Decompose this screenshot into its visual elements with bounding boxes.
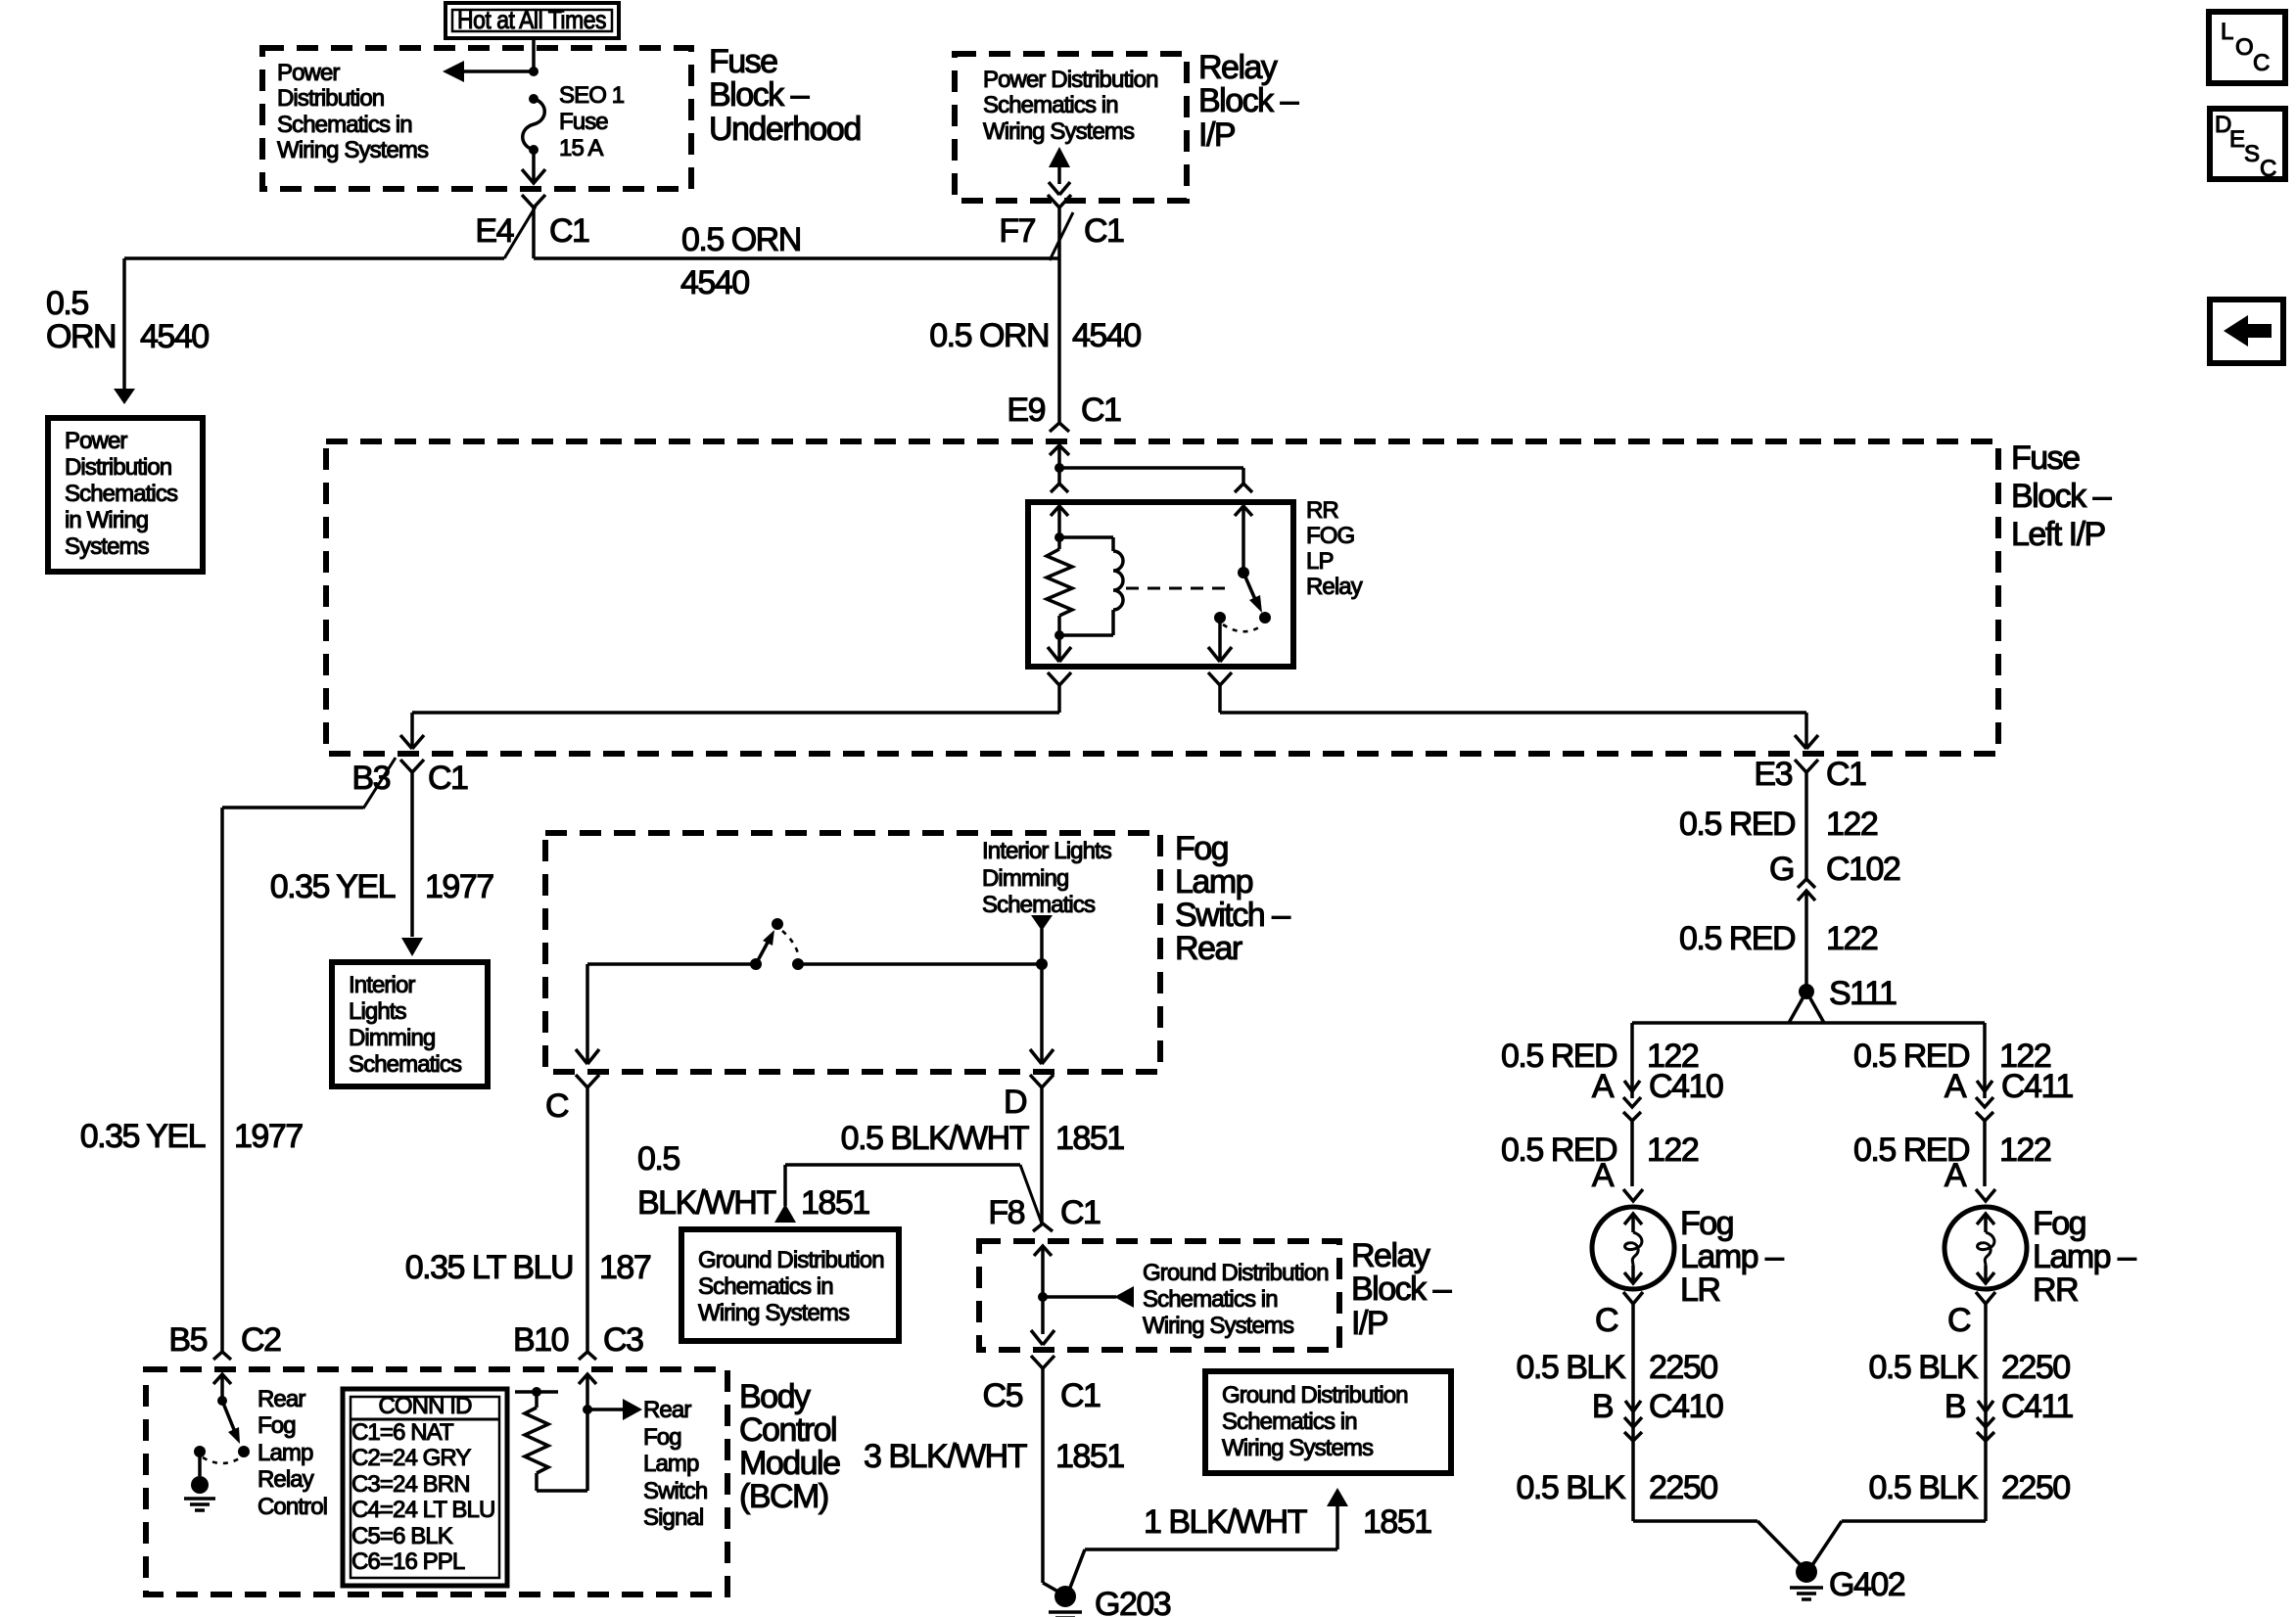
svg-text:C3: C3 [603, 1321, 643, 1359]
svg-text:122: 122 [1826, 920, 1878, 957]
relay block I/P lower dashed box [979, 1241, 1339, 1350]
label: 0.5 BLK 2250 (right lower) [1869, 1469, 2071, 1506]
svg-text:Fuse: Fuse [2011, 439, 2080, 477]
label: 0.5 RED 122 (right lower) [1853, 1132, 2051, 1169]
svg-text:Wiring Systems: Wiring Systems [983, 118, 1135, 145]
label: 0.5 RED 122 (E3) [1679, 806, 1878, 843]
label: Fuse Block - Underhood [709, 43, 861, 148]
svg-text:C410: C410 [1649, 1388, 1723, 1425]
connector B5/C2 [168, 1321, 281, 1360]
svg-text:I/P: I/P [1351, 1305, 1387, 1342]
label: 0.5 RED 122 (left branch) [1501, 1038, 1699, 1075]
label: 0.5 BLK 2250 (left lower) [1517, 1469, 1718, 1506]
connector coil pin below relay [1048, 672, 1071, 713]
ground G203 [1049, 1586, 1171, 1617]
svg-text:Wiring Systems: Wiring Systems [698, 1300, 850, 1326]
svg-text:Dimming: Dimming [982, 865, 1068, 892]
svg-text:Switch: Switch [643, 1478, 707, 1504]
svg-text:Schematics in: Schematics in [1143, 1286, 1278, 1313]
label: 0.5 BLK 2250 (right upper) [1869, 1349, 2071, 1386]
svg-text:Fog: Fog [643, 1424, 681, 1451]
svg-text:E: E [2229, 126, 2244, 153]
svg-text:C1: C1 [1081, 392, 1121, 429]
svg-text:15 A: 15 A [559, 135, 603, 162]
svg-text:122: 122 [1999, 1132, 2051, 1169]
wire relay to B3 [400, 713, 1059, 749]
svg-text:Block –: Block – [709, 76, 810, 114]
fog lamp switch rear dashed box [545, 833, 1160, 1072]
svg-text:2250: 2250 [2001, 1469, 2070, 1506]
svg-text:4540: 4540 [1072, 317, 1141, 354]
wire arrow to power distribution (left) [443, 61, 534, 82]
svg-text:Block –: Block – [2011, 478, 2112, 515]
connector F8/C1 [988, 1194, 1101, 1231]
svg-text:0.5 RED: 0.5 RED [1679, 920, 1795, 957]
wire B5 into BCM [213, 1374, 231, 1401]
svg-text:122: 122 [1826, 806, 1878, 843]
svg-text:Distribution: Distribution [65, 454, 171, 481]
wire relay to E3 [1220, 713, 1818, 749]
svg-text:Wiring Systems: Wiring Systems [277, 137, 429, 163]
connector C410 inline [1623, 1097, 1641, 1186]
fuse block underhood dashed box [262, 48, 691, 189]
relay switch [1214, 567, 1271, 631]
wire ground branch from F8 [785, 1165, 1042, 1224]
svg-text:187: 187 [599, 1249, 651, 1286]
svg-text:ORN: ORN [46, 318, 116, 355]
connector below left lamp [1595, 1292, 1643, 1521]
splice S111 [1799, 975, 1897, 1012]
open arrow at relay block bottom [1031, 1330, 1054, 1345]
BCM driver switch [194, 1396, 250, 1463]
svg-text:Control: Control [258, 1494, 327, 1520]
label: Body Control Module (BCM) [739, 1378, 840, 1515]
wire split from S111 [1632, 992, 1985, 1098]
svg-text:C3=24 BRN: C3=24 BRN [351, 1471, 470, 1498]
label: 0.5 ORN 4540 (middle) [929, 317, 1141, 354]
svg-text:A: A [1592, 1068, 1615, 1105]
svg-text:Schematics in: Schematics in [983, 92, 1118, 118]
ground G402 [1790, 1561, 1905, 1603]
svg-text:Dimming: Dimming [349, 1025, 435, 1051]
svg-text:RR: RR [2033, 1271, 2078, 1309]
svg-text:Interior: Interior [349, 972, 415, 998]
connector E9/C1 at fuse block edge [1007, 392, 1121, 468]
wire F8 into relay block [1034, 1246, 1052, 1334]
svg-text:BLK/WHT: BLK/WHT [637, 1184, 775, 1222]
svg-text:4540: 4540 [680, 264, 749, 301]
back arrow legend box [2210, 300, 2283, 363]
label B / C411 with arrow [1945, 1388, 2074, 1425]
svg-text:C410: C410 [1649, 1068, 1723, 1105]
open arrows at switch box bottom [576, 1049, 1054, 1064]
svg-text:F8: F8 [988, 1194, 1024, 1231]
svg-text:C411: C411 [2001, 1068, 2073, 1105]
pull-up resistor (BCM) [515, 1387, 587, 1491]
svg-text:2250: 2250 [2001, 1349, 2070, 1386]
svg-text:C5=6 BLK: C5=6 BLK [351, 1523, 453, 1549]
svg-text:G402: G402 [1829, 1566, 1905, 1603]
svg-text:C1: C1 [1060, 1194, 1101, 1231]
DESC legend box [2210, 109, 2285, 182]
svg-text:Ground Distribution: Ground Distribution [1222, 1382, 1408, 1409]
svg-text:Rear: Rear [1175, 930, 1242, 967]
label: 0.5 RED 122 (right branch) [1853, 1038, 2051, 1075]
node relay coil bottom dot [1054, 630, 1064, 640]
svg-text:Hot at All Times: Hot at All Times [457, 5, 606, 34]
svg-text:0.5 BLK: 0.5 BLK [1517, 1469, 1626, 1506]
wire from Hot tag down [532, 38, 536, 71]
svg-text:Fuse: Fuse [559, 109, 608, 135]
svg-text:Lamp: Lamp [643, 1451, 699, 1477]
svg-text:C4=24 LT BLU: C4=24 LT BLU [351, 1497, 494, 1523]
label: Rear Fog Lamp Relay Control [258, 1386, 327, 1520]
fog lamp RR [1945, 1207, 2027, 1289]
connector into left lamp [1623, 1189, 1643, 1201]
wire to G203 [1043, 1583, 1063, 1594]
svg-text:Module: Module [739, 1445, 840, 1482]
wire B3 branch left [222, 808, 363, 1352]
connector E3/C1 [1754, 756, 1866, 879]
connector G/C102 [1769, 851, 1900, 992]
label: Fog Lamp - LR [1680, 1205, 1784, 1309]
box: Ground Distribution Schematics in Wiring Systems (right) [1205, 1371, 1451, 1473]
box: Power Distribution Schematics in Wiring Systems (left) [48, 418, 203, 572]
arrow up to ground distribution box (right) [1327, 1488, 1348, 1506]
coil (relay) [1059, 537, 1123, 635]
label: 0.5 RED 122 (below C102) [1679, 920, 1878, 957]
svg-text:1977: 1977 [234, 1118, 303, 1155]
svg-text:0.5 BLK: 0.5 BLK [1869, 1349, 1979, 1386]
label B / C410 with arrow [1592, 1388, 1723, 1425]
svg-text:O: O [2235, 34, 2253, 61]
svg-text:Relay: Relay [1351, 1237, 1430, 1274]
svg-text:1 BLK/WHT: 1 BLK/WHT [1144, 1503, 1307, 1541]
svg-text:0.5 RED: 0.5 RED [1679, 806, 1795, 843]
connector B3/C1 [351, 758, 468, 937]
svg-text:B5: B5 [168, 1321, 207, 1359]
wire F7 down to E9 [1057, 208, 1061, 423]
ground inside BCM [184, 1452, 215, 1510]
svg-text:Wiring Systems: Wiring Systems [1222, 1435, 1374, 1461]
svg-text:0.5 ORN: 0.5 ORN [929, 317, 1049, 354]
svg-text:in Wiring: in Wiring [65, 507, 148, 533]
svg-text:Relay: Relay [1198, 49, 1278, 86]
svg-text:C1: C1 [549, 212, 589, 250]
svg-text:2250: 2250 [1649, 1349, 1717, 1386]
svg-text:I/P: I/P [1198, 116, 1235, 154]
relay block I/P top dashed box [955, 54, 1187, 201]
svg-text:3 BLK/WHT: 3 BLK/WHT [864, 1438, 1027, 1475]
svg-text:Body: Body [739, 1378, 811, 1415]
BCM dashed box [146, 1369, 727, 1594]
arrow from dimming schematics down [1031, 915, 1053, 964]
svg-text:C411: C411 [2001, 1388, 2073, 1425]
svg-text:Relay: Relay [258, 1466, 314, 1493]
svg-text:Power Distribution: Power Distribution [983, 67, 1158, 93]
connector relay coil pin top [1051, 484, 1068, 537]
dashed actuation line coil to switch [1126, 587, 1230, 590]
svg-text:E3: E3 [1754, 756, 1792, 793]
node junction dot [529, 67, 539, 76]
label: 1 BLK/WHT 1851 [1144, 1503, 1431, 1541]
svg-text:E9: E9 [1007, 392, 1045, 429]
svg-text:Rear: Rear [258, 1386, 305, 1412]
svg-text:Fog: Fog [258, 1412, 296, 1439]
svg-text:S111: S111 [1829, 975, 1897, 1012]
wire 4540 left branch [124, 258, 504, 391]
svg-text:0.35 YEL: 0.35 YEL [80, 1118, 206, 1155]
svg-text:Control: Control [739, 1411, 836, 1449]
svg-text:Ground Distribution: Ground Distribution [698, 1247, 884, 1273]
svg-text:Schematics: Schematics [349, 1051, 462, 1078]
label: Power Distribution Schematics in Wiring Systems (underhood) [277, 60, 429, 163]
wire coil pin bottom with arrow [1048, 635, 1071, 662]
svg-text:C2: C2 [241, 1321, 281, 1359]
svg-text:Underhood: Underhood [709, 111, 861, 148]
svg-text:B10: B10 [513, 1321, 569, 1359]
svg-text:C: C [2253, 50, 2270, 76]
label: 0.5 BLK 2250 (left upper) [1517, 1349, 1718, 1386]
svg-text:C: C [1595, 1302, 1618, 1339]
node relay coil top dot [1054, 532, 1064, 542]
svg-text:A: A [1592, 1157, 1615, 1194]
label A / C410 with arrow [1592, 1068, 1723, 1105]
connector C411 inline lower [1977, 1417, 1994, 1441]
wires to G402 [1633, 1521, 1986, 1565]
svg-text:Schematics in: Schematics in [277, 112, 412, 138]
svg-text:Ground Distribution: Ground Distribution [1143, 1260, 1329, 1286]
svg-text:Switch –: Switch – [1175, 897, 1290, 934]
svg-text:1851: 1851 [1055, 1438, 1124, 1475]
svg-text:A: A [1945, 1068, 1967, 1105]
svg-text:C1=6 NAT: C1=6 NAT [351, 1419, 454, 1446]
svg-text:B: B [1945, 1388, 1965, 1425]
svg-text:C2=24 GRY: C2=24 GRY [351, 1445, 471, 1471]
svg-text:(BCM): (BCM) [739, 1478, 828, 1515]
svg-text:C1: C1 [1826, 756, 1866, 793]
connector B10/C3 [513, 1321, 643, 1360]
svg-text:A: A [1945, 1157, 1967, 1194]
svg-text:0.35 LT BLU: 0.35 LT BLU [405, 1249, 573, 1286]
fuse block left I/P dashed box [326, 441, 1998, 754]
svg-text:C102: C102 [1826, 851, 1900, 888]
Hot at All Times tag [445, 3, 619, 38]
svg-text:C: C [2260, 156, 2276, 182]
svg-text:C1: C1 [1060, 1377, 1101, 1414]
arrow into power distribution box [114, 389, 135, 404]
relay RR FOG LP box [1028, 502, 1293, 667]
svg-text:FOG: FOG [1306, 523, 1354, 549]
node fuse top dot [529, 94, 539, 104]
connector E4/C1 [475, 195, 589, 258]
svg-text:1851: 1851 [1055, 1120, 1124, 1157]
node switch-dimmer junction dot [1036, 958, 1048, 970]
svg-text:Block –: Block – [1351, 1270, 1452, 1308]
connector C5/C1 [983, 1356, 1101, 1583]
connector switch pin below relay [1208, 672, 1232, 713]
node ground junction dot (relay block) [1038, 1292, 1048, 1302]
svg-text:2250: 2250 [1649, 1469, 1717, 1506]
LOC legend box [2209, 12, 2285, 83]
svg-text:Lamp –: Lamp – [1680, 1238, 1784, 1275]
label: Relay Block - I/P [1198, 49, 1299, 154]
svg-text:Rear: Rear [643, 1397, 691, 1423]
svg-text:Interior Lights: Interior Lights [982, 838, 1112, 864]
arrow to rear fog lamp switch signal [587, 1399, 642, 1420]
svg-text:CONN ID: CONN ID [378, 1393, 472, 1419]
resistor (relay) [1047, 537, 1072, 635]
fuse SEO 1 15 A (wavy symbol) [523, 99, 545, 150]
wire 4540 E4 to F7 [534, 256, 1059, 260]
label: Rear Fog Lamp Switch Signal [643, 1397, 707, 1531]
svg-text:C1: C1 [1084, 212, 1124, 250]
svg-text:C1: C1 [428, 760, 468, 797]
label: Relay Block - I/P (lower) [1351, 1237, 1452, 1342]
svg-text:G203: G203 [1095, 1586, 1171, 1617]
svg-text:C5: C5 [983, 1377, 1023, 1414]
label: 0.5 ORN 4540 (left) [46, 285, 209, 355]
label A / C411 with arrow [1945, 1068, 2074, 1105]
svg-text:C6=16 PPL: C6=16 PPL [351, 1548, 465, 1575]
svg-text:0.5 ORN: 0.5 ORN [681, 221, 801, 258]
svg-text:Schematics: Schematics [65, 481, 178, 507]
svg-text:Power: Power [65, 428, 127, 454]
connector C410 inline lower [1624, 1417, 1642, 1441]
label: 0.5 RED 122 (left lower) [1501, 1132, 1699, 1169]
svg-text:Power: Power [277, 60, 340, 86]
label: SEO 1 Fuse 15 A [559, 82, 625, 162]
svg-text:Left I/P: Left I/P [2011, 516, 2105, 553]
svg-text:Schematics in: Schematics in [1222, 1409, 1357, 1435]
svg-text:Signal: Signal [643, 1504, 703, 1531]
fog switch contacts and arm [750, 918, 804, 970]
svg-text:Lights: Lights [349, 998, 407, 1025]
wire to ground distribution (arrow left) [1043, 1286, 1134, 1308]
label: RR FOG LP Relay [1306, 497, 1363, 600]
label: 3 BLK/WHT 1851 [864, 1438, 1124, 1475]
arrow into interior lights box [401, 938, 423, 956]
svg-text:Fuse: Fuse [709, 43, 777, 80]
svg-text:LP: LP [1306, 548, 1334, 575]
svg-text:S: S [2244, 141, 2259, 167]
label: Fog Lamp - RR [2033, 1205, 2136, 1309]
connector D [1004, 1075, 1054, 1224]
svg-text:1851: 1851 [1363, 1503, 1431, 1541]
svg-text:0.35 YEL: 0.35 YEL [270, 868, 396, 905]
wire fuse to E4 with open arrow [522, 150, 545, 183]
label: 0.5 ORN 4540 (top middle) [680, 221, 801, 301]
svg-text:L: L [2221, 19, 2233, 45]
svg-text:G: G [1769, 851, 1794, 888]
svg-text:Wiring Systems: Wiring Systems [1143, 1313, 1294, 1339]
connector C411 inline [1976, 1097, 1993, 1186]
connector into right lamp [1976, 1189, 1995, 1201]
svg-text:122: 122 [1647, 1132, 1699, 1169]
svg-text:B: B [1592, 1388, 1613, 1425]
wire E9 branch to relay switch pin [1059, 468, 1243, 484]
svg-text:RR: RR [1306, 497, 1338, 524]
arrow up/down inside relay block [1049, 147, 1070, 195]
svg-text:Lamp: Lamp [1175, 863, 1253, 901]
label: Interior Lights Dimming Schematics (in switch box) [982, 838, 1112, 918]
svg-text:4540: 4540 [140, 318, 209, 355]
svg-text:Distribution: Distribution [277, 85, 384, 112]
box: Interior Lights Dimming Schematics [332, 962, 488, 1086]
svg-text:F7: F7 [999, 212, 1035, 250]
svg-text:B3: B3 [351, 760, 390, 797]
svg-text:LR: LR [1680, 1271, 1719, 1309]
svg-text:1977: 1977 [425, 868, 493, 905]
svg-text:Lamp: Lamp [258, 1440, 313, 1466]
label: Power Distribution Schematics in Wiring Systems (relay block) [983, 67, 1158, 145]
svg-text:0.5: 0.5 [637, 1140, 679, 1178]
label: 0.5 BLK/WHT 1851 (ground branch) [637, 1140, 869, 1222]
svg-text:SEO 1: SEO 1 [559, 82, 625, 109]
label: Fuse Block - Left I/P [2011, 439, 2112, 553]
svg-text:Lamp –: Lamp – [2033, 1238, 2136, 1275]
svg-text:D: D [1004, 1084, 1026, 1121]
connector relay switch pin top [1235, 484, 1252, 573]
connector C [545, 1075, 599, 1352]
svg-text:0.5 BLK: 0.5 BLK [1517, 1349, 1626, 1386]
label: 0.35 YEL 1977 (lower) [80, 1118, 304, 1155]
label: 0.35 LT BLU 187 [405, 1249, 651, 1286]
svg-text:C: C [1947, 1302, 1971, 1339]
svg-text:0.5 BLK/WHT: 0.5 BLK/WHT [841, 1120, 1029, 1157]
wire B10 into BCM [579, 1374, 596, 1491]
svg-text:Fog: Fog [1680, 1205, 1733, 1242]
CONN ID table [343, 1389, 507, 1586]
label: Ground Distribution Schematics in Wiring Systems (relay block) [1143, 1260, 1329, 1339]
svg-text:Block –: Block – [1198, 82, 1299, 119]
label: 0.5 BLK/WHT 1851 (at D) [841, 1120, 1125, 1157]
node fuse bottom dot [529, 145, 539, 155]
fog switch wires [587, 964, 1042, 1064]
svg-text:Relay: Relay [1306, 574, 1363, 600]
node B10 junction dot [583, 1405, 592, 1414]
node E9 junction dot [1054, 463, 1064, 473]
svg-text:Fog: Fog [1175, 830, 1228, 867]
fog lamp LR [1592, 1207, 1674, 1289]
connector F7/C1 [999, 195, 1124, 260]
arrow up to wire from ground distribution box [774, 1204, 796, 1223]
wire switch pin bottom with arrow [1208, 618, 1232, 662]
svg-text:Fog: Fog [2033, 1205, 2085, 1242]
connector below right lamp [1947, 1292, 1995, 1521]
svg-text:Schematics in: Schematics in [698, 1273, 833, 1300]
svg-text:1851: 1851 [801, 1184, 869, 1222]
svg-text:0.5: 0.5 [46, 285, 88, 322]
svg-text:Schematics: Schematics [982, 892, 1096, 918]
svg-text:C: C [545, 1087, 569, 1125]
box: Ground Distribution Schematics in Wiring Systems (left) [681, 1229, 899, 1341]
svg-text:E4: E4 [475, 212, 513, 250]
wire E9 down to relay coil pin [1057, 468, 1061, 484]
label: Fog Lamp Switch - Rear [1175, 830, 1290, 967]
wire 1 BLK/WHT branch [1068, 1504, 1337, 1593]
label: 0.35 YEL 1977 (upper) [270, 868, 494, 905]
svg-text:Systems: Systems [65, 533, 150, 560]
svg-text:0.5 BLK: 0.5 BLK [1869, 1469, 1979, 1506]
